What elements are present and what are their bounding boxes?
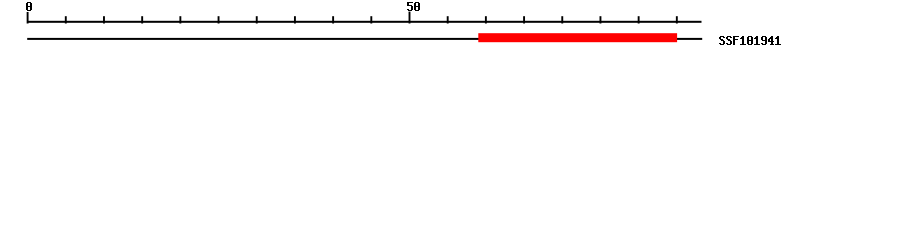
minor tick 35: [294, 16, 296, 23]
background: [0, 0, 900, 58]
minor tick 25: [218, 16, 220, 23]
minor tick 65: [523, 16, 525, 23]
minor tick 75: [600, 16, 602, 23]
domain box SSF101941: [478, 33, 677, 42]
ruler axis line: [27, 21, 702, 23]
minor tick 55: [447, 16, 449, 23]
minor tick 30: [256, 16, 258, 23]
minor tick 45: [370, 16, 372, 23]
minor tick 60: [485, 16, 487, 23]
ruler label 0: [26, 2, 32, 11]
minor tick 40: [332, 16, 334, 23]
minor tick 70: [561, 16, 563, 23]
domain label SSF101941: [719, 36, 781, 45]
minor tick 80: [638, 16, 640, 23]
sequence line: [27, 38, 702, 40]
minor tick 5: [65, 16, 67, 23]
minor tick 10: [103, 16, 105, 23]
minor tick 15: [141, 16, 143, 23]
minor tick 20: [179, 16, 181, 23]
ruler label 50: [407, 2, 420, 11]
major tick 50: [409, 12, 411, 24]
major tick 0: [27, 12, 29, 24]
minor tick 85: [676, 16, 678, 23]
